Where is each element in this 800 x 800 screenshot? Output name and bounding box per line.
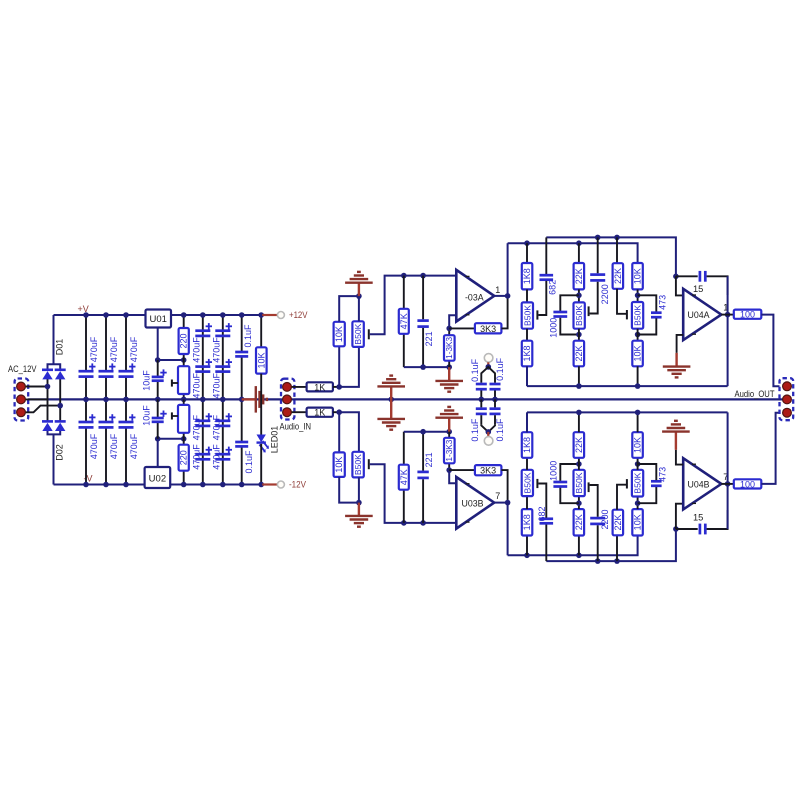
- svg-text:U04B: U04B: [688, 480, 710, 490]
- junction pot2 top b: [576, 461, 582, 467]
- svg-text:-12V: -12V: [289, 480, 306, 490]
- svg-text:7: 7: [495, 491, 500, 501]
- pin IN 2: [283, 395, 292, 404]
- svg-text:682: 682: [537, 506, 547, 521]
- wire 1K8a-pot1: [526, 289, 528, 302]
- capacitor 470uF C2a: [99, 370, 114, 373]
- junction pot2 top: [576, 293, 582, 299]
- svg-text:100: 100: [740, 310, 755, 320]
- ground bias bottom (pointing down): [358, 503, 360, 516]
- capacitor 0.1uF cpl A: [480, 375, 482, 383]
- op-amp U04B input marks: [692, 463, 696, 465]
- wire 1K8a-pot1 b: [526, 496, 528, 509]
- svg-text:1-3K3: 1-3K3: [445, 337, 454, 359]
- op-amp U03A input marks: [466, 275, 470, 277]
- potentiometer B50K input bottom: [352, 452, 363, 478]
- svg-text:1K8: 1K8: [522, 437, 532, 453]
- wire U04B minus to gnd: [676, 450, 683, 465]
- junction centre grounds: [388, 397, 394, 403]
- wire EQ line A top: [546, 237, 676, 276]
- junction pot top center: [181, 397, 187, 403]
- junction 1-3K3 top node b: [446, 429, 452, 435]
- regulator U01: [146, 310, 172, 328]
- svg-text:470uF: 470uF: [212, 337, 222, 363]
- wire bridge bottom drop: [53, 434, 55, 484]
- junction 221 bot: [420, 364, 426, 370]
- junction pot2 bot b: [576, 500, 582, 506]
- wire bridge left column: [47, 379, 49, 422]
- pin AC 2: [17, 395, 26, 404]
- wire U04A out: [721, 314, 734, 316]
- junction bus 22K: [576, 383, 582, 389]
- ground U04B (pointing up): [675, 432, 677, 450]
- svg-text:0.1uF: 0.1uF: [243, 324, 253, 348]
- resistor 1-3K3 top: [448, 328, 450, 335]
- wire U01 adj: [157, 328, 159, 361]
- junction cpl B centre: [492, 397, 498, 403]
- op-amp U04A input marks: [692, 294, 696, 296]
- capacitor 0.1uF top: [235, 351, 248, 354]
- svg-text:470uF: 470uF: [192, 337, 202, 363]
- resistor 10K bot a: [632, 509, 643, 535]
- wire IN pin1 lead: [287, 386, 307, 388]
- svg-text:470uF: 470uF: [109, 433, 119, 459]
- junction U04B plus node: [673, 526, 679, 532]
- diode D02 right: [55, 420, 66, 423]
- svg-text:D01: D01: [55, 339, 65, 356]
- wire 1K top out: [333, 386, 339, 388]
- svg-text:2200: 2200: [600, 509, 610, 529]
- svg-text:220: 220: [179, 333, 189, 348]
- resistor 22K top a: [578, 243, 580, 263]
- pin AC 3: [17, 408, 26, 417]
- junction adj bot b: [181, 436, 187, 442]
- junction chassis top: [486, 364, 492, 370]
- svg-text:0.1uF: 0.1uF: [244, 450, 254, 474]
- capacitor 682 bottom: [545, 524, 547, 561]
- potentiometer B50K input top: [352, 321, 363, 347]
- wire EQ line A bottom: [546, 529, 676, 561]
- capacitor 221 top: [422, 276, 424, 320]
- svg-text:B50K: B50K: [522, 305, 532, 326]
- junction col3 rails: [123, 312, 129, 318]
- junction cpl A centre: [479, 397, 485, 403]
- ground U04A (pointing down): [675, 353, 677, 366]
- capacitor 470uF C4d: [195, 453, 210, 456]
- junction U04A plus node: [673, 274, 679, 280]
- svg-text:10K: 10K: [334, 326, 344, 342]
- wire U04A out riser: [727, 276, 729, 386]
- capacitor 10uF top: [157, 360, 159, 377]
- wire fb to op-amp minus: [449, 315, 456, 328]
- wire cap column 3 bottom: [125, 399, 127, 422]
- diode D01 left: [42, 368, 53, 371]
- resistor 22K2 bottom: [616, 535, 618, 561]
- pin OUT 1: [783, 382, 792, 391]
- svg-text:Audio_IN: Audio_IN: [280, 422, 312, 432]
- wire U02 adj: [157, 439, 159, 467]
- junction pot3 bot: [635, 332, 641, 338]
- pin AC 1: [17, 382, 26, 391]
- junction 221 bot node: [420, 520, 426, 526]
- wire cap column 1 top: [85, 315, 87, 371]
- capacitor 470uF C3a: [119, 370, 134, 373]
- svg-text:AC_12V: AC_12V: [8, 364, 37, 374]
- resistor 47K bottom: [403, 490, 405, 523]
- svg-text:U04A: U04A: [688, 310, 710, 320]
- junction busb 10K: [635, 410, 641, 416]
- capacitor 470uF C5c: [215, 419, 230, 422]
- junction chassis bottom: [486, 429, 492, 435]
- wire AC pin2 lead: [21, 398, 48, 400]
- regulator U02: [145, 467, 171, 488]
- svg-text:473: 473: [657, 295, 667, 310]
- junction pot3 top b: [635, 500, 641, 506]
- capacitor 470uF C1a: [79, 370, 94, 373]
- capacitor 682 top: [545, 237, 547, 274]
- svg-text:100: 100: [740, 479, 755, 489]
- junction U03B out: [505, 500, 511, 506]
- junction col4: [200, 312, 206, 318]
- junction bus 10K: [635, 383, 641, 389]
- svg-text:22K: 22K: [613, 514, 623, 530]
- junction lineBb 22K: [576, 553, 582, 559]
- op-amp U03B: [456, 477, 494, 529]
- wire cap column 2 top: [105, 315, 107, 371]
- resistor 220 bottom: [183, 439, 185, 445]
- wire cap column 1 bottom: [85, 399, 87, 422]
- svg-text:15: 15: [693, 284, 703, 294]
- wire to +12V terminal: [262, 314, 277, 316]
- resistor 1K top: [307, 382, 333, 391]
- op-amp U03A: [456, 270, 494, 322]
- junction 1K bottom node: [336, 409, 342, 415]
- svg-text:B50K: B50K: [574, 305, 584, 326]
- svg-text:U01: U01: [149, 314, 166, 325]
- svg-text:+12V: +12V: [289, 310, 308, 320]
- ground 1-3K3 top (pointing down): [448, 367, 450, 380]
- resistor 3K3 bottom: [449, 469, 475, 471]
- svg-text:2200: 2200: [600, 284, 610, 304]
- capacitor 2200 bottom: [597, 525, 599, 561]
- capacitor 221 bottom: [422, 479, 424, 523]
- wire cap column 3 top: [125, 315, 127, 371]
- svg-text:B50K: B50K: [522, 472, 532, 493]
- svg-text:B50K: B50K: [353, 323, 363, 344]
- svg-text:10K: 10K: [256, 352, 266, 368]
- svg-text:0.1uF: 0.1uF: [470, 418, 480, 442]
- preset pot bottom: [183, 399, 185, 405]
- potentiometer B50K eq1 b: [522, 470, 533, 496]
- ground right-facing on centre line: [242, 398, 255, 400]
- svg-text:22K: 22K: [574, 268, 584, 284]
- wire Audio_IN pin2 through: [281, 398, 295, 400]
- junction fb node top: [446, 326, 452, 332]
- wire fb to op-amp minus bot: [449, 470, 456, 483]
- junction 47K bot node: [401, 520, 407, 526]
- junction bias top: [356, 293, 362, 299]
- resistor 10K bot b: [637, 458, 639, 470]
- svg-text:U03B: U03B: [462, 499, 484, 509]
- svg-text:22K: 22K: [574, 345, 584, 361]
- svg-text:3K3: 3K3: [480, 324, 496, 334]
- svg-text:LED01: LED01: [269, 426, 279, 454]
- wire EQ line B top: [508, 243, 638, 263]
- terminal -12V: [277, 481, 284, 488]
- svg-text:22K: 22K: [574, 437, 584, 453]
- capacitor 10uF bottom: [157, 399, 159, 418]
- junction lineB 1K8: [524, 240, 530, 246]
- junction fb node bottom: [446, 467, 452, 473]
- resistor 1K8 bot a: [526, 536, 528, 556]
- svg-text:470uF: 470uF: [129, 336, 139, 362]
- ground centre lower (pointing down): [390, 399, 392, 418]
- wire cap column 4: [202, 315, 204, 399]
- svg-text:1K: 1K: [314, 408, 325, 418]
- wire bridge right column: [59, 379, 61, 422]
- wire riser to 10K/B50K top: [338, 346, 340, 387]
- wire inv bus top: [404, 366, 449, 368]
- junction 221 top node b: [420, 429, 426, 435]
- wire Audio_OUT pin2 through: [780, 398, 788, 400]
- junction 10uF center: [155, 397, 161, 403]
- junction adj top b: [181, 357, 187, 363]
- junction adj bot a: [155, 436, 161, 442]
- svg-text:B50K: B50K: [633, 305, 643, 326]
- svg-text:221: 221: [424, 331, 434, 346]
- diode D01 right: [55, 368, 66, 371]
- wire bridge top bracket: [48, 364, 61, 370]
- wire center audio ground line: [26, 398, 783, 400]
- terminal +12V: [277, 312, 284, 319]
- svg-text:B50K: B50K: [574, 472, 584, 493]
- wire +V top rail: [54, 314, 146, 316]
- junction pot3 bot b: [635, 461, 641, 467]
- capacitor 470uF C5b: [215, 365, 230, 368]
- capacitor 470uF C2b: [99, 421, 114, 424]
- svg-text:10K: 10K: [633, 437, 643, 453]
- resistor 1K bottom: [307, 408, 333, 417]
- potentiometer B50K eq1: [522, 302, 533, 328]
- resistor 22K bot a: [578, 536, 580, 556]
- svg-text:47K: 47K: [399, 469, 409, 485]
- capacitor 473 bottom: [638, 487, 657, 503]
- capacitor 0.1uF cpl B: [494, 375, 496, 383]
- wire wiper riser top: [370, 276, 457, 335]
- wire LED-rail: [260, 444, 262, 485]
- junction LED rail: [258, 482, 264, 488]
- resistor 1K8 top a: [526, 243, 528, 263]
- junction AC-D01: [45, 384, 51, 390]
- junction lineBb 1K8: [524, 553, 530, 559]
- resistor 10K input bottom: [334, 452, 345, 477]
- wire 1K bottom out: [333, 411, 339, 413]
- capacitor 470uF C3b: [119, 421, 134, 424]
- wire pot1-1K8b: [526, 329, 528, 341]
- pin OUT 2: [783, 395, 792, 404]
- svg-text:470uF: 470uF: [129, 433, 139, 459]
- op-amp U04B: [683, 458, 721, 509]
- resistor 10K psu: [260, 315, 262, 347]
- svg-text:3K3: 3K3: [480, 466, 496, 476]
- capacitor 473 top: [638, 295, 657, 311]
- wire U04B plus in: [676, 504, 683, 529]
- junction centre ground: [239, 397, 245, 403]
- svg-text:220: 220: [179, 450, 189, 465]
- resistor 1K8 bot b: [522, 432, 533, 458]
- svg-text:15: 15: [693, 513, 703, 523]
- svg-text:470uF: 470uF: [212, 414, 222, 440]
- svg-text:470uF: 470uF: [89, 433, 99, 459]
- wire chassis merge bottom: [481, 424, 495, 432]
- svg-text:10K: 10K: [334, 457, 344, 473]
- junction 10K rail: [258, 312, 264, 318]
- capacitor 1000 bottom: [560, 488, 579, 504]
- wire wiper riser bottom: [370, 464, 457, 523]
- svg-text:1K8: 1K8: [522, 268, 532, 284]
- led LED01: [257, 435, 266, 443]
- junction pot3 top: [635, 293, 641, 299]
- wire U04B out riser: [727, 412, 729, 529]
- wire U03A out: [494, 295, 507, 297]
- resistor 3K3 top: [449, 327, 475, 329]
- potentiometer B50K eq3 b: [632, 470, 643, 497]
- svg-text:1000: 1000: [548, 461, 558, 481]
- capacitor 1000 top: [560, 295, 579, 311]
- wire IN pin3 lead: [287, 411, 307, 413]
- diode D02 left: [42, 420, 53, 423]
- junction bias bottom: [356, 500, 362, 506]
- svg-text:470uF: 470uF: [192, 373, 202, 399]
- svg-text:1K8: 1K8: [522, 345, 532, 361]
- resistor 100 bottom: [734, 479, 762, 488]
- svg-text:470uF: 470uF: [89, 336, 99, 362]
- wire chassis stub top: [487, 362, 489, 367]
- svg-text:1-3K3: 1-3K3: [445, 439, 454, 461]
- junction col5: [220, 312, 226, 318]
- resistor 10K input top: [334, 322, 345, 347]
- connector Audio_IN box: [281, 379, 294, 420]
- capacitor 2200 top: [597, 237, 599, 273]
- capacitor 15 top: [676, 275, 698, 277]
- junction U03A out: [505, 293, 511, 299]
- wire chassis split top: [481, 367, 495, 375]
- svg-text:Audio_OUT: Audio_OUT: [735, 389, 775, 399]
- potentiometer B50K eq2 b: [574, 470, 585, 496]
- connector AC_12V box: [15, 379, 29, 421]
- wire U03A out riser: [507, 243, 509, 296]
- wire 0.1uF column: [241, 315, 243, 352]
- wire B50K bottom to node: [339, 347, 359, 387]
- wire AC pin3 jog: [21, 406, 60, 413]
- junction busb 22K: [576, 410, 582, 416]
- wire bridge bottom bracket: [48, 431, 61, 435]
- junction U04A out: [725, 312, 731, 318]
- resistor 100 top: [734, 310, 762, 319]
- pin IN 1: [283, 383, 292, 392]
- terminal chassis bottom: [484, 437, 493, 446]
- svg-text:10K: 10K: [633, 268, 643, 284]
- svg-text:1K8: 1K8: [522, 514, 532, 530]
- junction adj top a: [155, 357, 161, 363]
- svg-text:1K: 1K: [314, 382, 325, 392]
- resistor 1K8 top b: [522, 341, 533, 367]
- svg-text:22K: 22K: [574, 514, 584, 530]
- wire 10K-LED: [260, 374, 262, 435]
- svg-text:10K: 10K: [633, 345, 643, 361]
- junction lineA 22K2: [614, 235, 620, 241]
- svg-text:10uF: 10uF: [142, 405, 152, 426]
- svg-text:10K: 10K: [633, 514, 643, 530]
- connector Audio_OUT box: [780, 378, 794, 420]
- junction col1 rails: [83, 312, 89, 318]
- ground 1-3K3 bottom (pointing up): [448, 418, 450, 431]
- wire cap column 2 bottom: [105, 399, 107, 422]
- junction 221 top: [420, 273, 426, 279]
- resistor 22K2 top: [616, 237, 618, 263]
- svg-text:470uF: 470uF: [109, 336, 119, 362]
- wire to -12V terminal: [262, 483, 277, 485]
- svg-text:470uF: 470uF: [212, 444, 222, 470]
- wire 100 to OUT pin1: [761, 315, 784, 387]
- wire EQ line B bottom: [508, 536, 638, 556]
- op-amp U03B input marks: [466, 483, 470, 485]
- junction 220 rail: [181, 312, 187, 318]
- capacitor 0.1uF bottom: [235, 441, 248, 444]
- svg-text:470uF: 470uF: [192, 444, 202, 470]
- svg-text:470uF: 470uF: [192, 414, 202, 440]
- svg-text:-03A: -03A: [465, 293, 484, 303]
- wire U04A plus in: [676, 276, 683, 295]
- svg-text:B50K: B50K: [633, 472, 643, 493]
- ground bias top (pointing up): [358, 283, 360, 296]
- wire EQ feedback bus bottom: [526, 412, 528, 432]
- resistor 10K top b: [637, 329, 639, 341]
- capacitor 470uF C4c: [195, 419, 210, 422]
- svg-text:B50K: B50K: [353, 454, 363, 475]
- junction 1-3K3 bot: [446, 364, 452, 370]
- svg-text:0.1uF: 0.1uF: [495, 418, 505, 442]
- svg-text:473: 473: [657, 467, 667, 482]
- svg-text:1: 1: [495, 285, 500, 295]
- capacitor 470uF C4a: [195, 329, 210, 332]
- svg-text:D02: D02: [55, 444, 65, 461]
- resistor 22K bot b: [578, 458, 580, 470]
- resistor 1-3K3 bottom: [448, 463, 450, 470]
- capacitor 470uF C4b: [195, 365, 210, 368]
- wire U04A minus to gnd: [677, 335, 684, 353]
- svg-text:0.1uF: 0.1uF: [495, 357, 505, 381]
- potentiometer B50K eq3: [632, 302, 643, 329]
- wire bias bottoms: [339, 477, 359, 503]
- capacitor 0.1uF cpl C: [480, 399, 482, 407]
- pin OUT 3: [783, 408, 792, 417]
- capacitor 15 bottom: [676, 528, 698, 530]
- svg-text:221: 221: [424, 452, 434, 467]
- junction lineB 22K: [576, 240, 582, 246]
- wire U03B out: [494, 502, 507, 504]
- capacitor 470uF C5d: [215, 453, 230, 456]
- svg-text:1000: 1000: [548, 318, 558, 338]
- svg-text:U02: U02: [149, 474, 166, 485]
- potentiometer B50K eq2: [574, 302, 585, 328]
- wire chassis stub bottom: [487, 432, 489, 437]
- wire inv bus bottom: [404, 431, 449, 433]
- junction lineAb 2200: [595, 558, 601, 564]
- wire AC pin1 lead: [21, 386, 48, 388]
- wire B50K top to node bot: [339, 412, 359, 452]
- junction lineAb 22K2: [614, 558, 620, 564]
